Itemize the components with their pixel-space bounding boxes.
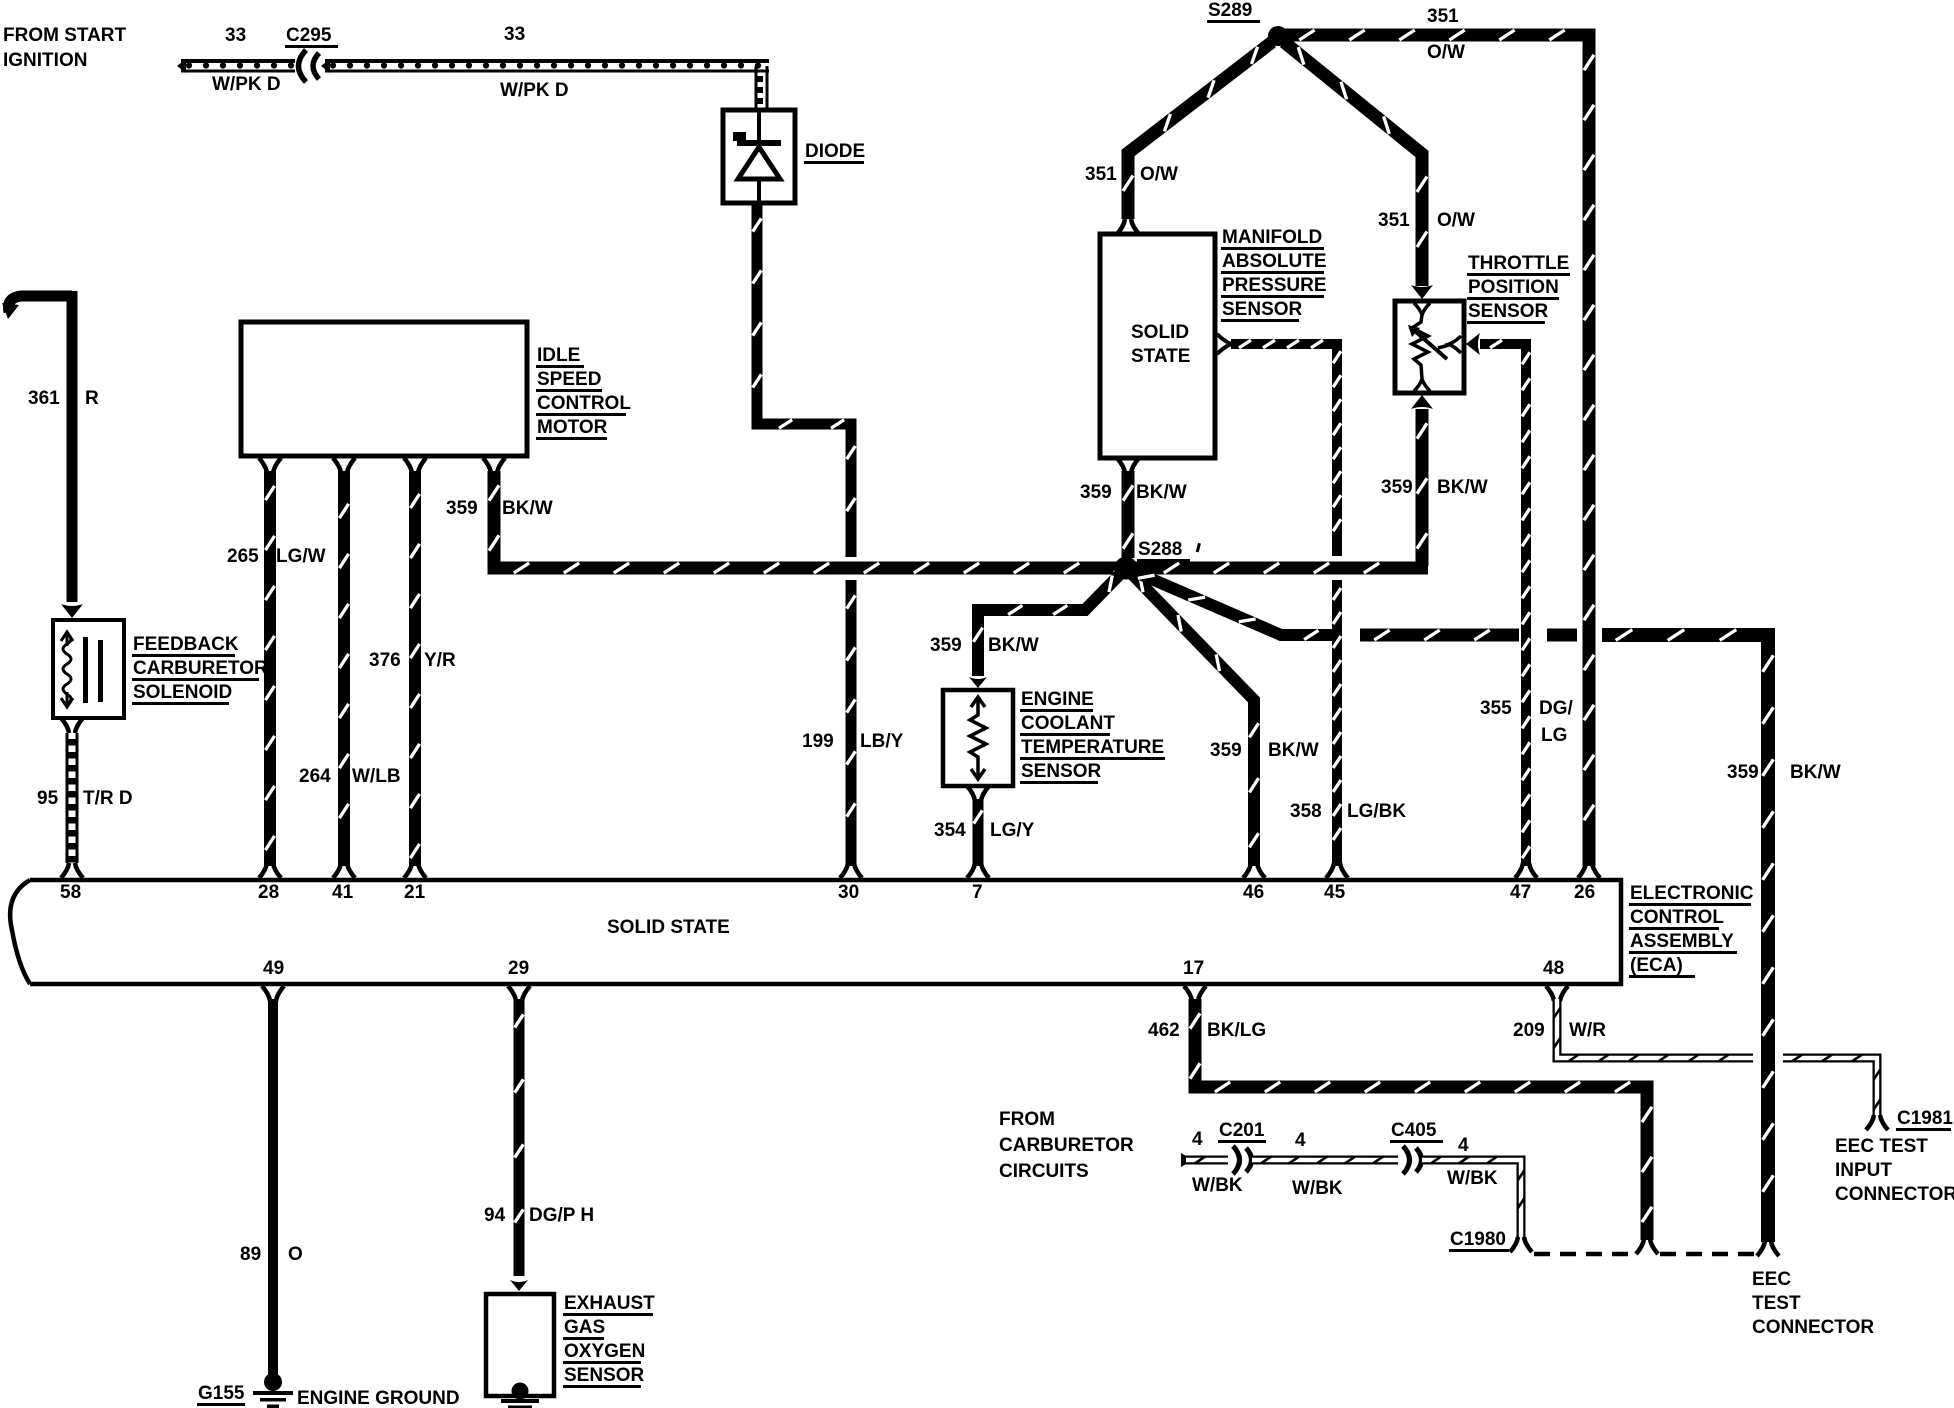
text FROM CARBURETOR CIRCUITS bbox=[999, 1109, 1134, 1182]
svg-text:ABSOLUTE: ABSOLUTE bbox=[1222, 251, 1327, 272]
label 351 (MAP) bbox=[1085, 164, 1117, 185]
pin label 29 bbox=[508, 958, 529, 979]
svg-text:C201: C201 bbox=[1219, 1120, 1265, 1141]
wire 359 BK/W from MAP bbox=[1123, 471, 1133, 558]
svg-text:28: 28 bbox=[258, 882, 279, 903]
pin label 7 bbox=[972, 882, 983, 903]
svg-text:CARBURETOR: CARBURETOR bbox=[133, 658, 268, 679]
label T/R D bbox=[83, 788, 133, 809]
svg-text:351: 351 bbox=[1427, 6, 1459, 27]
pin 29 connector bbox=[508, 986, 530, 1001]
label O/W (TPS) bbox=[1437, 210, 1475, 231]
svg-text:DG/P H: DG/P H bbox=[529, 1205, 594, 1226]
label W/BK (3) bbox=[1447, 1168, 1498, 1189]
svg-text:OXYGEN: OXYGEN bbox=[564, 1341, 645, 1362]
label 359 (right) bbox=[1727, 762, 1759, 783]
svg-text:W/LB: W/LB bbox=[352, 766, 401, 787]
text FROM START IGNITION bbox=[3, 25, 127, 71]
wire 351 O/W to MAP bbox=[1123, 42, 1272, 219]
label 359 (ECTS) bbox=[930, 635, 962, 656]
pin label 46 bbox=[1243, 882, 1264, 903]
label EEC TEST INPUT CONNECTOR bbox=[1835, 1136, 1954, 1205]
wire 4 W/BK segment 1 bbox=[1186, 1157, 1228, 1164]
arrow into TPS bottom bbox=[1411, 395, 1433, 409]
svg-text:W/BK: W/BK bbox=[1292, 1178, 1343, 1199]
svg-text:SOLID STATE: SOLID STATE bbox=[607, 917, 730, 938]
pin label 49 bbox=[263, 958, 284, 979]
label W/BK (1) bbox=[1192, 1175, 1243, 1196]
svg-text:EXHAUST: EXHAUST bbox=[564, 1293, 655, 1314]
pin 7 connector bbox=[967, 863, 989, 878]
pin label 47 bbox=[1510, 882, 1531, 903]
wire 199 LB/Y from diode (upper) bbox=[753, 203, 856, 557]
pin 17 connector bbox=[1184, 986, 1206, 1001]
svg-text:MOTOR: MOTOR bbox=[537, 417, 608, 438]
wire 376 Y/R bbox=[410, 471, 419, 866]
label R bbox=[85, 388, 99, 409]
svg-text:29: 29 bbox=[508, 958, 529, 979]
svg-text:ENGINE: ENGINE bbox=[1021, 689, 1094, 710]
arrow into TPS top bbox=[1411, 285, 1433, 299]
svg-text:T/R D: T/R D bbox=[83, 788, 133, 809]
label MANIFOLD ABSOLUTE PRESSURE SENSOR bbox=[1221, 227, 1327, 322]
svg-text:CONNECTOR: CONNECTOR bbox=[1752, 1317, 1874, 1338]
label BK/W (MAP) bbox=[1136, 482, 1187, 503]
svg-text:49: 49 bbox=[263, 958, 284, 979]
junction S289 bbox=[1268, 26, 1288, 46]
wire 209 W/R segment 2 bbox=[1783, 1055, 1880, 1116]
svg-text:359: 359 bbox=[1210, 740, 1242, 761]
svg-text:ELECTRONIC: ELECTRONIC bbox=[1630, 883, 1754, 904]
svg-text:R: R bbox=[85, 388, 99, 409]
svg-text:CONTROL: CONTROL bbox=[537, 393, 631, 414]
svg-text:351: 351 bbox=[1085, 164, 1117, 185]
label LG/W bbox=[276, 546, 326, 567]
wire 359 BK/W to pin 46 bbox=[1126, 568, 1259, 866]
svg-text:BK/W: BK/W bbox=[1268, 740, 1319, 761]
pin label 30 bbox=[838, 882, 859, 903]
label O/W (top) bbox=[1427, 42, 1465, 63]
pin 21 connector bbox=[404, 863, 426, 878]
diode D1 bbox=[723, 110, 795, 203]
label BK/W (right) bbox=[1790, 762, 1841, 783]
label C1981 bbox=[1896, 1108, 1953, 1131]
exhaust gas oxygen sensor bbox=[486, 1294, 554, 1408]
svg-text:47: 47 bbox=[1510, 882, 1531, 903]
label BK/W (TPS) bbox=[1437, 477, 1488, 498]
svg-text:POSITION: POSITION bbox=[1468, 277, 1559, 298]
wire 359 BK/W main horizontal bbox=[489, 471, 1428, 573]
pin label 26 bbox=[1574, 882, 1595, 903]
label S288 bbox=[1137, 539, 1190, 562]
svg-text:376: 376 bbox=[369, 650, 401, 671]
svg-text:LG/W: LG/W bbox=[276, 546, 326, 567]
pin label 41 bbox=[332, 882, 354, 903]
wire 33 W/PK D left segment bbox=[177, 59, 295, 73]
pin 58 connector bbox=[61, 863, 83, 878]
label 4 (3) bbox=[1458, 1135, 1469, 1156]
462 end connector bbox=[1636, 1239, 1658, 1254]
EEC test connector pin bbox=[1757, 1241, 1779, 1256]
label 33 (right) bbox=[504, 24, 525, 45]
pin 49 connector bbox=[262, 986, 284, 1001]
svg-text:199: 199 bbox=[802, 731, 834, 752]
pin 26 connector bbox=[1578, 863, 1600, 878]
svg-text:INPUT: INPUT bbox=[1835, 1160, 1892, 1181]
label W/PK D (left) bbox=[212, 74, 281, 95]
svg-text:354: 354 bbox=[934, 820, 966, 841]
svg-text:W/PK D: W/PK D bbox=[500, 80, 569, 101]
label LB/Y bbox=[860, 731, 904, 752]
label W/BK (2) bbox=[1292, 1178, 1343, 1199]
svg-text:BK/W: BK/W bbox=[1136, 482, 1187, 503]
tick after S288 bbox=[1196, 543, 1201, 552]
label 355 bbox=[1480, 698, 1512, 719]
svg-text:W/BK: W/BK bbox=[1447, 1168, 1498, 1189]
svg-text:O/W: O/W bbox=[1140, 164, 1178, 185]
svg-text:GAS: GAS bbox=[564, 1317, 605, 1338]
svg-text:DG/: DG/ bbox=[1539, 698, 1574, 719]
arrow into TPS right bbox=[1466, 333, 1480, 355]
svg-text:265: 265 bbox=[227, 546, 259, 567]
label LG/Y bbox=[990, 820, 1035, 841]
svg-text:S289: S289 bbox=[1208, 0, 1252, 21]
label LG/BK bbox=[1347, 801, 1406, 822]
svg-text:4: 4 bbox=[1458, 1135, 1469, 1156]
svg-text:46: 46 bbox=[1243, 882, 1264, 903]
svg-text:STATE: STATE bbox=[1131, 346, 1190, 367]
svg-text:TEST: TEST bbox=[1752, 1293, 1801, 1314]
svg-text:C1981: C1981 bbox=[1897, 1108, 1953, 1129]
label LG bbox=[1541, 725, 1567, 746]
label 33 (left) bbox=[225, 25, 246, 46]
pin 46 connector bbox=[1243, 863, 1265, 878]
svg-text:358: 358 bbox=[1290, 801, 1322, 822]
label G155 bbox=[197, 1383, 245, 1406]
wire 361 R vertical bbox=[67, 291, 78, 602]
wire 358 LG/BK upper bbox=[1231, 340, 1341, 556]
svg-text:ENGINE GROUND: ENGINE GROUND bbox=[297, 1388, 460, 1408]
idle speed control motor bbox=[241, 322, 527, 473]
svg-text:CARBURETOR: CARBURETOR bbox=[999, 1135, 1134, 1156]
svg-text:264: 264 bbox=[299, 766, 331, 787]
svg-text:CONNECTOR: CONNECTOR bbox=[1835, 1184, 1954, 1205]
svg-text:BK/W: BK/W bbox=[1437, 477, 1488, 498]
wire 95 T/R D bbox=[61, 718, 83, 863]
label 209 bbox=[1513, 1020, 1545, 1041]
svg-text:7: 7 bbox=[972, 882, 983, 903]
svg-text:C1980: C1980 bbox=[1450, 1229, 1506, 1250]
label Y/R bbox=[424, 650, 456, 671]
pin 48 connector bbox=[1546, 986, 1568, 1001]
svg-text:58: 58 bbox=[60, 882, 81, 903]
wire 4 W/BK segment 3 bbox=[1422, 1157, 1524, 1238]
svg-text:BK/W: BK/W bbox=[988, 635, 1039, 656]
label THROTTLE POSITION SENSOR bbox=[1467, 253, 1570, 324]
svg-text:45: 45 bbox=[1324, 882, 1346, 903]
wire 94 DG/P H bbox=[515, 999, 524, 1276]
wire 361 R hook end bbox=[2, 296, 72, 319]
pin label 58 bbox=[60, 882, 81, 903]
svg-text:G155: G155 bbox=[198, 1383, 245, 1404]
svg-text:C295: C295 bbox=[286, 25, 332, 46]
svg-text:21: 21 bbox=[404, 882, 426, 903]
wire 359 BK/W to ECTS bbox=[973, 568, 1126, 676]
svg-text:361: 361 bbox=[28, 388, 60, 409]
svg-text:SENSOR: SENSOR bbox=[564, 1365, 645, 1386]
svg-text:SENSOR: SENSOR bbox=[1468, 301, 1549, 322]
pin label 45 bbox=[1324, 882, 1346, 903]
label IDLE SPEED CONTROL MOTOR bbox=[536, 345, 631, 440]
label 359 (MAP) bbox=[1080, 482, 1112, 503]
wire 33 W/PK D right segment bbox=[321, 59, 769, 110]
wire 351 O/W top horizontal bbox=[1285, 30, 1594, 866]
svg-text:41: 41 bbox=[332, 882, 354, 903]
svg-text:48: 48 bbox=[1543, 958, 1564, 979]
pin 28 connector bbox=[259, 863, 281, 878]
label 359 (TPS) bbox=[1381, 477, 1413, 498]
svg-text:355: 355 bbox=[1480, 698, 1512, 719]
junction S288 bbox=[1115, 557, 1138, 580]
label C1980 bbox=[1449, 1229, 1509, 1252]
label DG/P H bbox=[529, 1205, 594, 1226]
svg-text:26: 26 bbox=[1574, 882, 1595, 903]
svg-text:359: 359 bbox=[1727, 762, 1759, 783]
arrow into EGO sensor bbox=[510, 1280, 528, 1291]
svg-text:BK/LG: BK/LG bbox=[1207, 1020, 1266, 1041]
label SOLID STATE (ECA) bbox=[607, 917, 730, 938]
svg-text:TEMPERATURE: TEMPERATURE bbox=[1021, 737, 1164, 758]
connector C295 bbox=[299, 50, 320, 82]
pin label 17 bbox=[1183, 958, 1204, 979]
label C201 bbox=[1218, 1120, 1266, 1143]
svg-text:94: 94 bbox=[484, 1205, 506, 1226]
wire 351 O/W to TPS bbox=[1284, 42, 1427, 286]
pin label 48 bbox=[1543, 958, 1564, 979]
svg-text:Y/R: Y/R bbox=[424, 650, 456, 671]
svg-text:30: 30 bbox=[838, 882, 859, 903]
svg-text:351: 351 bbox=[1378, 210, 1410, 231]
wire 4 W/BK segment 2 bbox=[1252, 1157, 1398, 1164]
label SOLID STATE (MAP) bbox=[1131, 322, 1190, 367]
label DIODE bbox=[804, 141, 865, 164]
wire 462 BK/LG bbox=[1190, 999, 1652, 1240]
label W/R bbox=[1569, 1020, 1606, 1041]
label 361 bbox=[28, 388, 60, 409]
label 462 bbox=[1148, 1020, 1180, 1041]
connector C1981 pin bbox=[1866, 1115, 1888, 1130]
svg-text:IDLE: IDLE bbox=[537, 345, 580, 366]
label 199 bbox=[802, 731, 834, 752]
label 265 bbox=[227, 546, 259, 567]
label C295 bbox=[285, 25, 338, 48]
svg-text:359: 359 bbox=[1381, 477, 1413, 498]
svg-text:462: 462 bbox=[1148, 1020, 1180, 1041]
label ENGINE GROUND bbox=[297, 1388, 460, 1408]
svg-text:O/W: O/W bbox=[1427, 42, 1465, 63]
ground G155 bbox=[253, 1373, 293, 1408]
label BK/W (ISC) bbox=[502, 498, 553, 519]
svg-text:W/BK: W/BK bbox=[1192, 1175, 1243, 1196]
connector C405 bbox=[1403, 1146, 1422, 1174]
arrow into ECTS bbox=[969, 677, 987, 688]
electronic control assembly (ECA) box bbox=[10, 880, 1621, 984]
label 351 (top) bbox=[1427, 6, 1459, 27]
manifold absolute pressure sensor box bbox=[1100, 234, 1215, 458]
svg-text:SOLID: SOLID bbox=[1131, 322, 1189, 343]
label 95 bbox=[37, 788, 59, 809]
wire 359 BK/W from TPS bbox=[1417, 409, 1427, 566]
wire 4 W/BK start arrow bbox=[1181, 1153, 1193, 1167]
arrow into solenoid bbox=[61, 604, 83, 618]
svg-text:BK/W: BK/W bbox=[1790, 762, 1841, 783]
label 359 (46) bbox=[1210, 740, 1242, 761]
svg-text:CONTROL: CONTROL bbox=[1630, 907, 1724, 928]
svg-text:W/PK D: W/PK D bbox=[212, 74, 281, 95]
svg-text:DIODE: DIODE bbox=[805, 141, 865, 162]
svg-text:359: 359 bbox=[930, 635, 962, 656]
svg-text:C405: C405 bbox=[1391, 1120, 1437, 1141]
MAP bottom connector bbox=[1117, 458, 1139, 473]
svg-text:33: 33 bbox=[504, 24, 525, 45]
MAP right pin bbox=[1217, 334, 1231, 354]
svg-text:FEEDBACK: FEEDBACK bbox=[133, 634, 239, 655]
pin 41 connector bbox=[333, 863, 355, 878]
svg-text:359: 359 bbox=[446, 498, 478, 519]
svg-text:SPEED: SPEED bbox=[537, 369, 601, 390]
pin label 28 bbox=[258, 882, 279, 903]
svg-text:(ECA): (ECA) bbox=[1630, 955, 1683, 976]
label ENGINE COOLANT TEMPERATURE SENSOR bbox=[1020, 689, 1165, 784]
wire 89 O bbox=[268, 999, 278, 1376]
svg-text:LG: LG bbox=[1541, 725, 1567, 746]
label ELECTRONIC CONTROL ASSEMBLY (ECA) bbox=[1629, 883, 1754, 978]
label 376 bbox=[369, 650, 401, 671]
svg-text:LB/Y: LB/Y bbox=[860, 731, 904, 752]
svg-text:359: 359 bbox=[1080, 482, 1112, 503]
svg-text:CIRCUITS: CIRCUITS bbox=[999, 1161, 1089, 1182]
svg-text:EEC: EEC bbox=[1752, 1269, 1791, 1290]
svg-text:IGNITION: IGNITION bbox=[3, 50, 87, 71]
wire 264 W/LB bbox=[339, 471, 348, 866]
label C405 bbox=[1390, 1120, 1443, 1143]
label 94 bbox=[484, 1205, 506, 1226]
pin 47 connector bbox=[1515, 863, 1537, 878]
svg-text:MANIFOLD: MANIFOLD bbox=[1222, 227, 1322, 248]
label 4 (2) bbox=[1295, 1130, 1306, 1151]
pin 45 connector bbox=[1326, 863, 1348, 878]
wire 359 BK/W branch diagonal bbox=[1126, 568, 1335, 640]
wire 199 LB/Y lower to pin 30 bbox=[847, 580, 856, 866]
MAP top connector bbox=[1117, 219, 1139, 234]
svg-text:PRESSURE: PRESSURE bbox=[1222, 275, 1327, 296]
svg-text:FROM: FROM bbox=[999, 1109, 1055, 1130]
label BK/W (ECTS) bbox=[988, 635, 1039, 656]
wire 354 LG/Y bbox=[974, 799, 983, 866]
label W/PK D (right) bbox=[500, 80, 569, 101]
label S289 bbox=[1207, 0, 1260, 23]
label 4 (1) bbox=[1192, 1129, 1203, 1150]
svg-text:SOLENOID: SOLENOID bbox=[133, 682, 232, 703]
svg-text:EEC TEST: EEC TEST bbox=[1835, 1136, 1928, 1157]
wire 265 LG/W bbox=[265, 471, 274, 866]
label 351 (TPS) bbox=[1378, 210, 1410, 231]
svg-text:W/R: W/R bbox=[1569, 1020, 1606, 1041]
wire 209 W/R segment 1 bbox=[1554, 999, 1753, 1061]
svg-text:ASSEMBLY: ASSEMBLY bbox=[1630, 931, 1734, 952]
label 354 bbox=[934, 820, 966, 841]
feedback carburetor solenoid bbox=[53, 620, 124, 718]
label 358 bbox=[1290, 801, 1322, 822]
svg-text:95: 95 bbox=[37, 788, 59, 809]
connector C1980 pin bbox=[1510, 1237, 1532, 1252]
pin 30 connector bbox=[840, 863, 862, 878]
svg-text:COOLANT: COOLANT bbox=[1021, 713, 1115, 734]
svg-text:BK/W: BK/W bbox=[502, 498, 553, 519]
svg-text:LG/Y: LG/Y bbox=[990, 820, 1035, 841]
engine coolant temperature sensor bbox=[943, 690, 1013, 786]
dashed test connector line bbox=[1534, 1252, 1756, 1257]
label 264 bbox=[299, 766, 331, 787]
svg-text:4: 4 bbox=[1295, 1130, 1306, 1151]
wire 358 LG/BK lower bbox=[1333, 580, 1341, 866]
wire 355 DG/LG bbox=[1480, 340, 1530, 866]
wire 359 BK/W y636 seg2 bbox=[1360, 630, 1519, 640]
label EEC TEST CONNECTOR bbox=[1752, 1269, 1874, 1338]
svg-text:S288: S288 bbox=[1138, 539, 1182, 560]
svg-text:33: 33 bbox=[225, 25, 246, 46]
wire 359 BK/W y636 seg3 bbox=[1547, 629, 1577, 642]
svg-text:THROTTLE: THROTTLE bbox=[1468, 253, 1569, 274]
label W/LB bbox=[352, 766, 401, 787]
svg-text:89: 89 bbox=[240, 1244, 261, 1265]
svg-text:17: 17 bbox=[1183, 958, 1204, 979]
throttle position sensor box bbox=[1395, 301, 1464, 393]
svg-text:209: 209 bbox=[1513, 1020, 1545, 1041]
label O/W (MAP) bbox=[1140, 164, 1178, 185]
pin label 21 bbox=[404, 882, 426, 903]
label 89 bbox=[240, 1244, 261, 1265]
wire 359 BK/W y636 seg4 and right vertical bbox=[1602, 630, 1773, 1242]
svg-text:4: 4 bbox=[1192, 1129, 1203, 1150]
svg-text:O: O bbox=[288, 1244, 303, 1265]
label DG/ bbox=[1539, 698, 1574, 719]
label FEEDBACK CARBURETOR SOLENOID bbox=[132, 634, 268, 705]
svg-text:LG/BK: LG/BK bbox=[1347, 801, 1406, 822]
svg-text:FROM START: FROM START bbox=[3, 25, 127, 46]
svg-text:SENSOR: SENSOR bbox=[1222, 299, 1303, 320]
svg-text:SENSOR: SENSOR bbox=[1021, 761, 1102, 782]
label BK/W (46) bbox=[1268, 740, 1319, 761]
label 359 (ISC) bbox=[446, 498, 478, 519]
label BK/LG bbox=[1207, 1020, 1266, 1041]
ECTS bottom connector bbox=[967, 786, 989, 801]
label EXHAUST GAS OXYGEN SENSOR bbox=[563, 1293, 655, 1388]
connector C201 bbox=[1233, 1146, 1252, 1174]
svg-text:O/W: O/W bbox=[1437, 210, 1475, 231]
label O bbox=[288, 1244, 303, 1265]
